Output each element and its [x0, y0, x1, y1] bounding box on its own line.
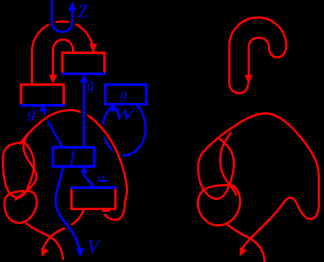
- wire: big red ellipse arc of left knot (over blue strands, black halo): [20, 110, 128, 220]
- wire: blue strand f box bottom to a box top: [83, 167, 85, 171]
- arrowhead: red pointing up-left under a box: [99, 204, 110, 215]
- svg-text:g: g: [120, 87, 127, 102]
- arrowhead: red into g-tilde box top: [89, 44, 97, 53]
- knot: right pretzel S-strand: [220, 132, 236, 195]
- svg-text:a: a: [98, 170, 105, 185]
- label: underline of a: [98, 180, 108, 182]
- arrowhead: red pointing down at bottom-left: [38, 248, 48, 259]
- wire: blue Z strand cup at top (over red arch, halo): [52, 0, 72, 32]
- arrowhead: blue up into g box bottom: [39, 104, 47, 112]
- wire: blue V strand from f box bottom to bottom arrow (halo): [56, 167, 80, 253]
- wire: blue balloon loop hanging from rho box bottom (under layer): [103, 105, 145, 156]
- knot: right pretzel bottom lobe: [198, 185, 240, 225]
- box: g-tilde (upper red box, blue bottom edge): [61, 53, 105, 74]
- arrowhead: blue pointing down below f box: [81, 170, 88, 177]
- arrowhead: red pointing down at right diagram bottom: [236, 247, 247, 258]
- box: f (blue box): [53, 147, 95, 166]
- wire: inner red arch from g-tilde box top to g box top: [53, 40, 73, 80]
- knot: left pretzel top lobe: [3, 142, 34, 197]
- knot: right balloon big arc with hook and arrow: [206, 113, 319, 252]
- arrowhead: blue pointing down labeled V: [76, 248, 84, 257]
- arrowhead: blue pointing up labeled Z: [68, 2, 76, 11]
- wire: red exit strand from left pretzel to bottom edge: [26, 223, 64, 260]
- arrowhead: blue up into rho box bottom left: [110, 104, 118, 112]
- wire: blue strand from g box bottom to f box top (under layer): [43, 108, 62, 147]
- arrowhead: red pointing down on cane inner stroke: [245, 75, 253, 84]
- knot: left pretzel bottom lobe: [4, 191, 36, 223]
- box: rho representation box (blue): [105, 85, 146, 105]
- svg-text:Z: Z: [78, 2, 88, 23]
- wire: red strand from a box bottom to bottom-left arrow: [42, 209, 84, 252]
- svg-text:g: g: [27, 107, 36, 122]
- box: g (left red box, blue bottom edge): [20, 85, 65, 106]
- knot: right cane (cap with inner curl) top right: [229, 18, 286, 94]
- svg-text:g̃: g̃: [87, 79, 94, 94]
- wire: blue vertical from g-tilde box bottom to f box top (over red, halo): [81, 77, 88, 147]
- knot: right pretzel top lobe: [198, 138, 234, 199]
- wire: big red cap arch from g box top to g-tilde box top: [32, 21, 93, 84]
- arrowhead: blue up into g-tilde box bottom: [80, 74, 88, 82]
- box: a (lower red box, blue top edge): [70, 188, 116, 209]
- svg-text:W: W: [113, 105, 137, 124]
- wire: red exit strand from right pretzel to bottom edge: [228, 225, 265, 262]
- arrowhead: red into g box top: [49, 75, 57, 84]
- knot: left pretzel S-strand: [15, 134, 37, 201]
